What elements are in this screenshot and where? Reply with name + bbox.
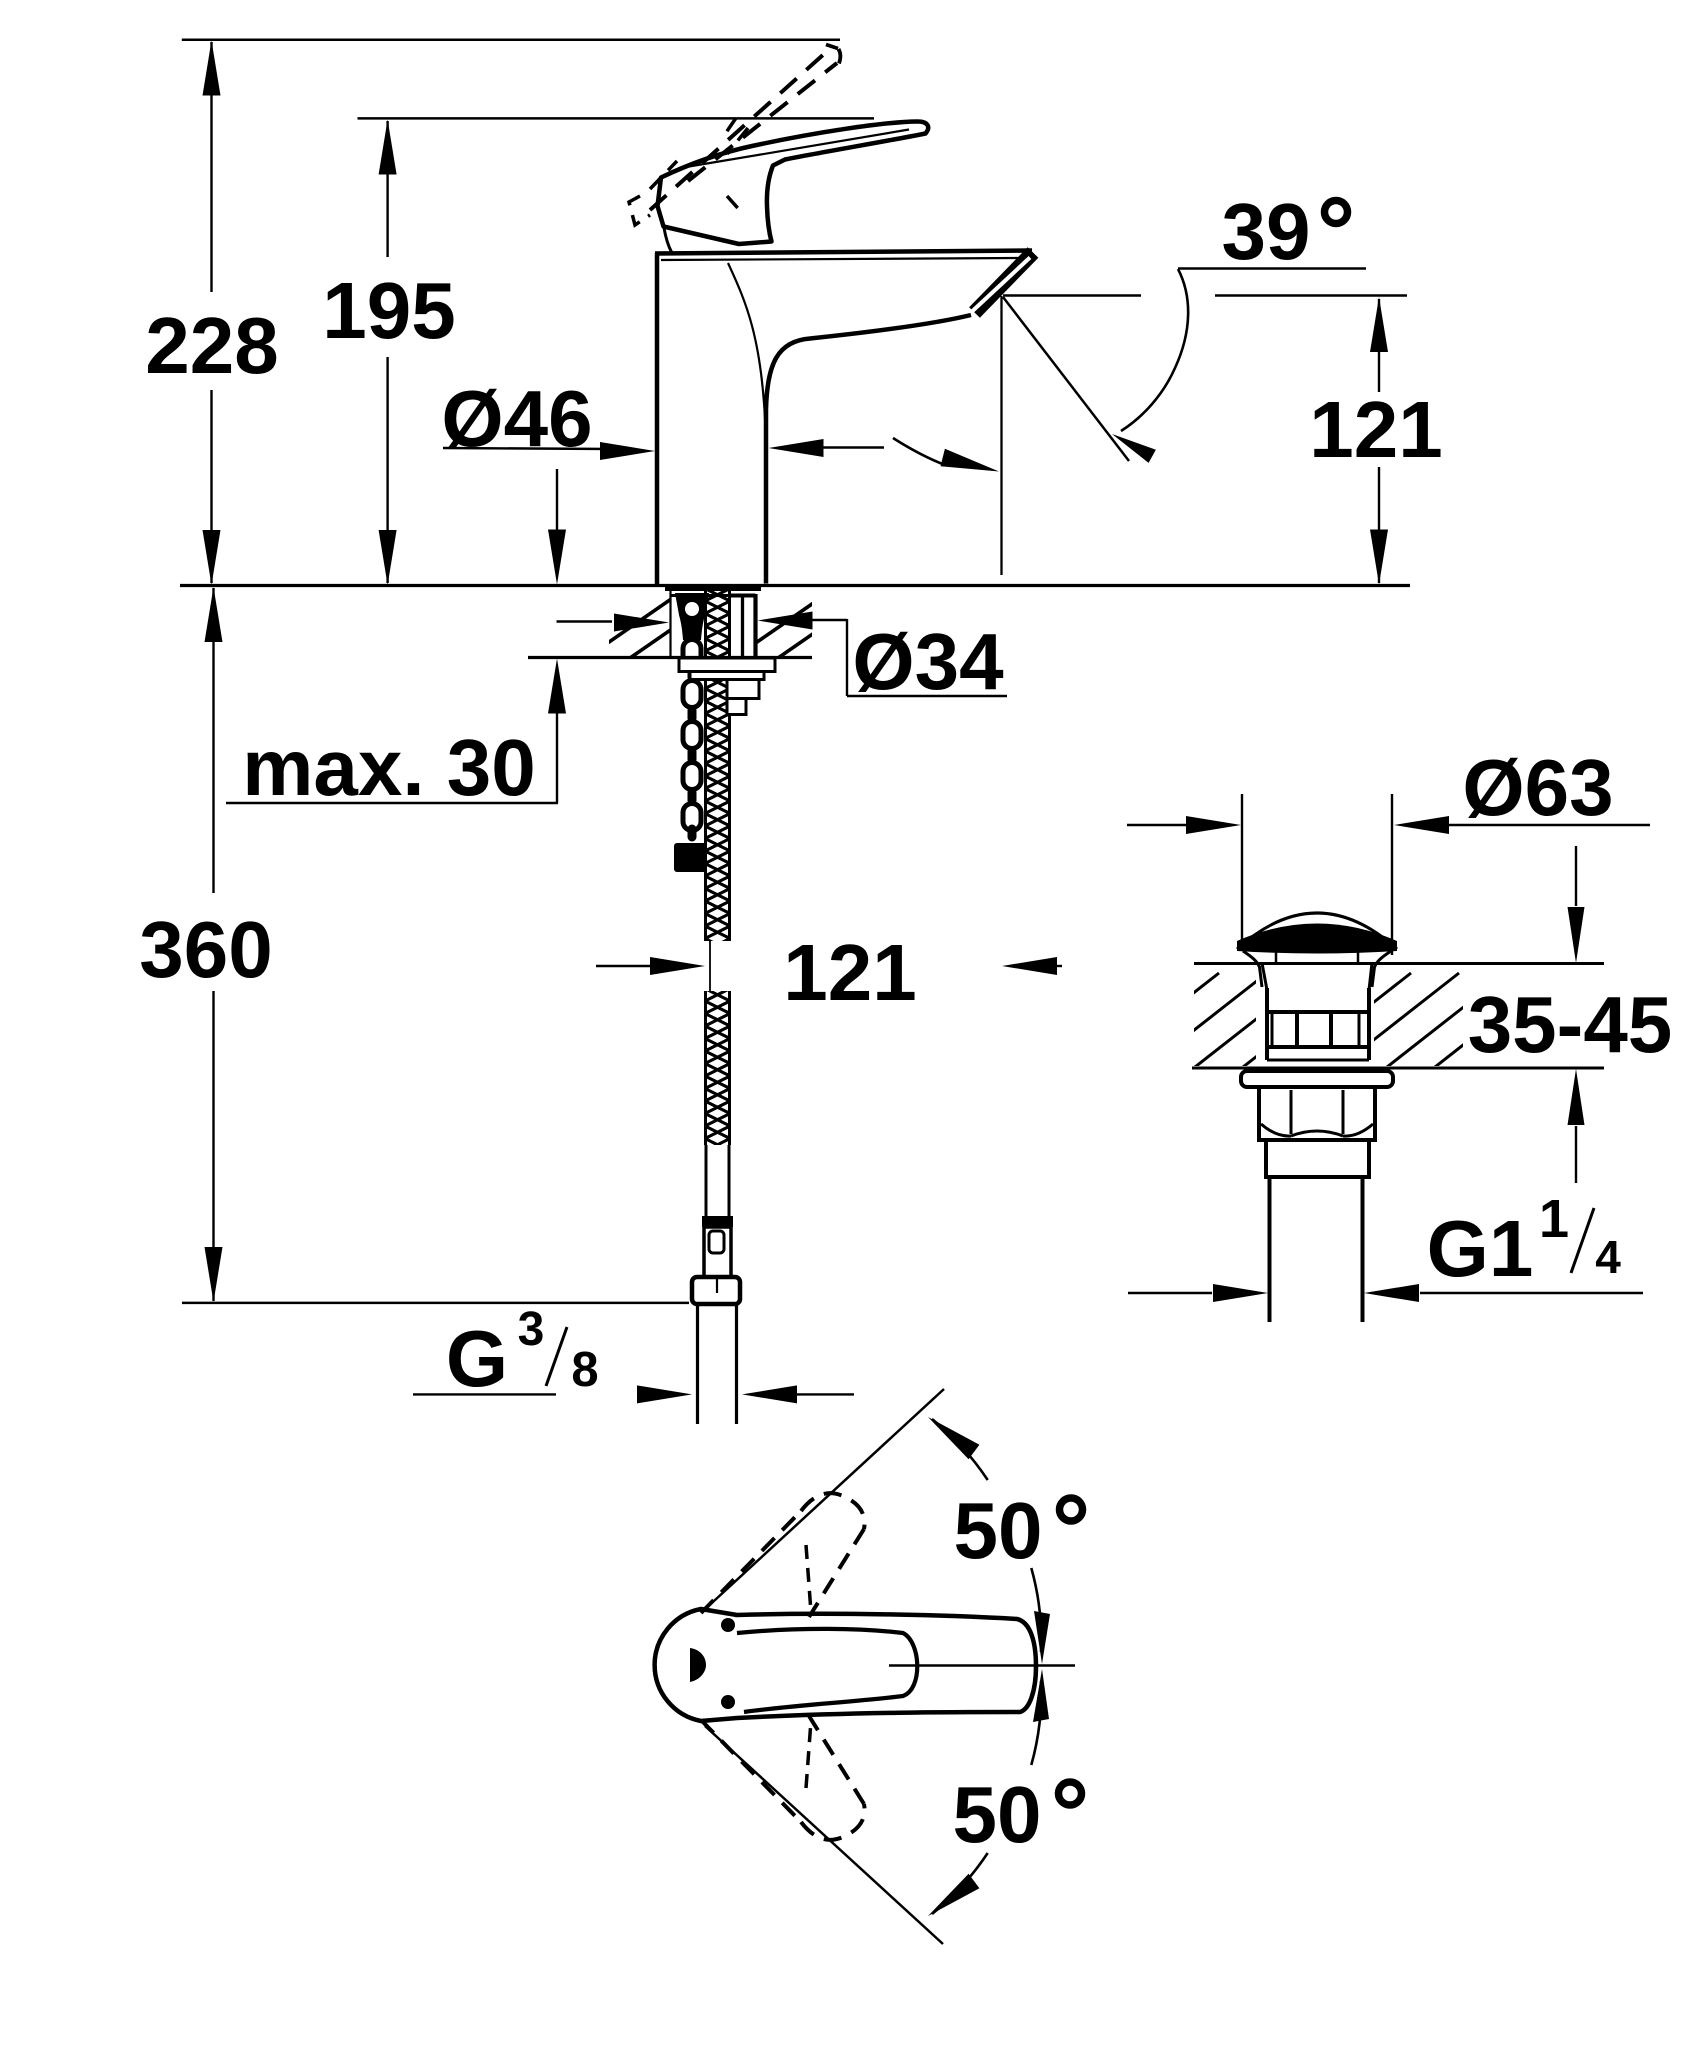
svg-text:39: 39 <box>1222 187 1311 276</box>
svg-text:195: 195 <box>322 266 455 355</box>
svg-text:50: 50 <box>953 1770 1042 1859</box>
svg-text:max. 30: max. 30 <box>242 723 536 812</box>
svg-text:G: G <box>446 1314 508 1403</box>
svg-text:35-45: 35-45 <box>1468 980 1673 1069</box>
svg-text:360: 360 <box>139 905 272 994</box>
svg-text:121: 121 <box>1309 385 1442 474</box>
svg-text:121: 121 <box>783 928 916 1017</box>
svg-text:Ø34: Ø34 <box>852 617 1004 706</box>
svg-text:50: 50 <box>954 1486 1043 1575</box>
svg-text:1: 1 <box>1539 1189 1569 1249</box>
svg-text:Ø63: Ø63 <box>1462 743 1613 832</box>
svg-text:3: 3 <box>518 1303 545 1356</box>
svg-text:8: 8 <box>571 1343 598 1397</box>
svg-text:4: 4 <box>1595 1231 1621 1283</box>
svg-text:G1: G1 <box>1427 1204 1534 1293</box>
svg-text:228: 228 <box>145 301 278 390</box>
